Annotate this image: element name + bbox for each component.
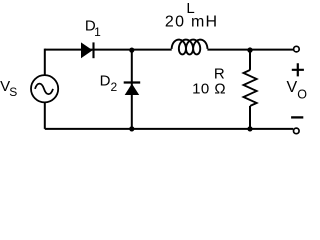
node dot R bottom xyxy=(247,126,252,131)
wire top horizontal xyxy=(45,49,294,51)
terminal top open circle xyxy=(294,46,300,52)
plus sign xyxy=(292,63,304,76)
node dot R top xyxy=(247,47,252,52)
svg-text:S: S xyxy=(9,85,17,99)
svg-text:1: 1 xyxy=(94,25,101,39)
svg-text:2: 2 xyxy=(111,80,118,94)
wire left vertical xyxy=(44,49,46,129)
inductor L coil xyxy=(172,40,208,55)
diode D1 bar xyxy=(92,42,94,58)
source VS circle xyxy=(31,75,58,102)
wire R branch vertical bottom xyxy=(249,106,251,129)
terminal bottom open circle xyxy=(294,128,300,134)
diode D2 bar xyxy=(124,81,141,83)
svg-text:20 mH: 20 mH xyxy=(165,14,217,31)
wire D2 branch vertical xyxy=(131,50,133,129)
svg-text:V: V xyxy=(287,79,298,96)
diode D2 triangle xyxy=(125,84,140,95)
wire bottom horizontal xyxy=(45,128,293,130)
svg-text:O: O xyxy=(297,88,307,102)
node dot D2 top xyxy=(129,48,134,53)
node dot D2 bottom xyxy=(129,126,134,131)
resistor R zigzag xyxy=(244,70,257,106)
minus sign xyxy=(291,116,303,118)
diode D1 triangle xyxy=(81,42,93,58)
svg-text:10 Ω: 10 Ω xyxy=(192,81,226,98)
source VS sine xyxy=(35,84,53,95)
wire R branch vertical top xyxy=(249,49,251,70)
svg-text:D: D xyxy=(100,72,111,89)
